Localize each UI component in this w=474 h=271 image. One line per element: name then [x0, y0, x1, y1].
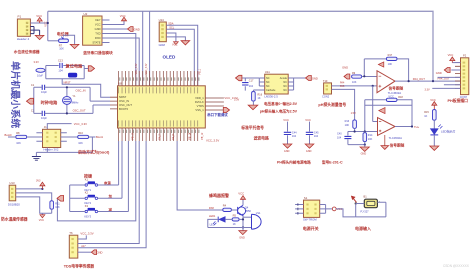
- svg-text:10K: 10K: [16, 141, 21, 145]
- wire R10 right: [89, 136, 96, 138]
- svg-text:标准平托信号: 标准平托信号: [240, 125, 264, 130]
- resistor R4: [223, 208, 232, 211]
- svg-text:TDS电导率传感器: TDS电导率传感器: [64, 263, 95, 268]
- svg-text:3.3V: 3.3V: [425, 88, 430, 91]
- ground earth at boot: [32, 157, 41, 161]
- svg-text:K2: K2: [85, 191, 89, 195]
- svg-text:BOOT0: BOOT0: [119, 107, 129, 111]
- svg-text:防水温度传感器: 防水温度传感器: [1, 217, 28, 222]
- svg-text:串口下载调试: 串口下载调试: [207, 112, 228, 117]
- svg-text:VCC_3.3V: VCC_3.3V: [206, 139, 219, 143]
- wire HC-05 KEY stub: [102, 19, 110, 21]
- wire TDS pin1 to VCC: [78, 235, 87, 239]
- capacitor C44: [287, 122, 289, 144]
- potentiometer R7: [59, 39, 69, 43]
- svg-text:NC: NC: [266, 81, 270, 84]
- MCU inside bottom pin names: [119, 120, 198, 126]
- buzzer LS1: [252, 214, 262, 229]
- svg-text:PA4_OUT: PA4_OUT: [413, 77, 425, 81]
- svg-text:PJ-327: PJ-327: [360, 209, 369, 213]
- wire op2 minus input: [373, 121, 378, 123]
- svg-text:NC: NC: [266, 77, 270, 80]
- svg-text:PA8: PA8: [209, 206, 214, 210]
- svg-text:GND: GND: [239, 237, 245, 240]
- port arrow reset: [84, 68, 88, 70]
- wire LM336 input: [242, 77, 259, 79]
- wire button left rail: [69, 185, 71, 212]
- svg-text:3.3V: 3.3V: [234, 98, 239, 101]
- svg-text:Boot0: Boot0: [5, 133, 13, 137]
- bluetooth module U2 HC-05: [83, 16, 102, 45]
- port arrow button common: [57, 196, 64, 202]
- svg-text:启动方式为(boot): 启动方式为(boot): [78, 149, 110, 155]
- arrow feedback direction op2: [379, 108, 385, 114]
- svg-text:蓝牙串口通信模块: 蓝牙串口通信模块: [83, 50, 113, 55]
- svg-text:T6: T6: [69, 231, 73, 235]
- svg-text:P2: P2: [463, 54, 467, 58]
- svg-text:R5: R5: [233, 213, 237, 217]
- resistor R17 feedback: [386, 57, 397, 60]
- op-amp U10B TLC4502A: [378, 118, 396, 136]
- wire OLED pin4 to GND: [166, 37, 185, 41]
- capacitor C45: [309, 122, 311, 144]
- svg-text:TH+: TH+: [414, 125, 420, 129]
- svg-text:电源开关: 电源开关: [303, 225, 319, 231]
- svg-text:10K: 10K: [78, 141, 83, 145]
- resistor R13: [353, 120, 357, 128]
- pushbutton K1: [85, 184, 87, 186]
- svg-text:滤波电路: 滤波电路: [253, 135, 269, 140]
- wire LED to ground: [433, 135, 435, 146]
- ground at op2 body: [384, 135, 386, 146]
- svg-text:8MHz: 8MHz: [72, 100, 79, 104]
- svg-text:R14: R14: [368, 134, 373, 137]
- svg-text:VDD_1: VDD_1: [195, 96, 204, 100]
- svg-text:10K: 10K: [345, 124, 350, 127]
- svg-text:VCC: VCC: [36, 14, 42, 18]
- wire crystal top: [34, 87, 110, 101]
- svg-text:TLC4502A: TLC4502A: [388, 91, 402, 95]
- svg-text:T10: T10: [323, 79, 328, 83]
- wire P1 pins 2-4 common: [30, 27, 39, 36]
- svg-text:Boot1: Boot1: [96, 135, 104, 139]
- wire DS18B20 pin3 loop: [16, 197, 52, 215]
- connector P2 pH board: [461, 58, 469, 95]
- svg-text:R18: R18: [398, 96, 403, 99]
- svg-text:LS1: LS1: [256, 211, 261, 215]
- svg-text:SW-TROM: SW-TROM: [303, 217, 317, 221]
- svg-text:K3: K3: [85, 204, 89, 208]
- wire switch to battery: [336, 209, 356, 217]
- svg-text:OSC_OUT: OSC_OUT: [73, 108, 86, 112]
- svg-text:10pF: 10pF: [41, 90, 47, 94]
- wire OLED pin1 to MCU: [166, 25, 197, 86]
- svg-text:K1: K1: [85, 177, 89, 181]
- svg-text:GND: GND: [342, 66, 348, 70]
- wire pH board pin3 GND: [451, 69, 460, 71]
- MCU top pin stubs: [119, 71, 198, 86]
- svg-text:GND: GND: [312, 76, 318, 80]
- wire K2 row: [70, 141, 122, 198]
- svg-text:STATE: STATE: [92, 41, 100, 45]
- wire R4 to Q4 base: [231, 209, 237, 211]
- svg-text:VCC: VCC: [43, 21, 47, 27]
- svg-text:P1: P1: [18, 15, 22, 19]
- svg-text:GND: GND: [436, 71, 442, 75]
- svg-text:NRST: NRST: [64, 81, 71, 85]
- svg-text:10uF: 10uF: [37, 74, 43, 78]
- wire op1 feedback loop: [364, 59, 408, 81]
- svg-text:RXD: RXD: [95, 36, 101, 40]
- svg-text:C1: C1: [31, 83, 35, 87]
- svg-text:LED指示灯: LED指示灯: [441, 128, 455, 133]
- svg-text:PB_1: PB_1: [200, 68, 202, 74]
- microcontroller U8 STM32: [118, 86, 206, 128]
- MCU top pin numbers: [120, 77, 199, 80]
- svg-text:1K: 1K: [424, 115, 427, 118]
- wire LED to R5 to emitter: [225, 218, 243, 220]
- ground at C45: [305, 144, 314, 148]
- wire pH board pin7: [444, 84, 461, 86]
- svg-text:水位液位传感器: 水位液位传感器: [13, 49, 40, 54]
- svg-text:GDM: GDM: [159, 43, 166, 47]
- wire op2 bottom rail to ground: [348, 144, 365, 146]
- svg-text:DVCLK: DVCLK: [195, 100, 204, 104]
- resistor R8: [16, 135, 27, 138]
- svg-text:Header 3X2: Header 3X2: [44, 147, 59, 151]
- svg-text:1K: 1K: [233, 222, 236, 226]
- svg-text:PH板接插口: PH板接插口: [448, 98, 469, 103]
- wire R13 to plus input: [348, 128, 378, 131]
- svg-text:PH探头内部电源电路: PH探头内部电源电路: [277, 159, 311, 164]
- svg-text:OSC_IN: OSC_IN: [76, 88, 86, 92]
- wire OLED pin2 to MCU: [166, 29, 194, 86]
- resistor R11: [50, 201, 54, 209]
- svg-text:U2: U2: [84, 12, 88, 16]
- svg-text:NC: NC: [283, 85, 287, 88]
- svg-text:104: 104: [249, 85, 254, 88]
- ground at LED indicator: [430, 146, 439, 150]
- wire op2 output: [395, 126, 412, 128]
- wire Q4 collector to VCC: [242, 199, 244, 205]
- svg-text:单片机最小系统: 单片机最小系统: [9, 61, 21, 129]
- svg-text:GND: GND: [284, 150, 290, 153]
- svg-text:信号跟随: 信号跟随: [390, 143, 405, 148]
- wire op inputs junction down: [372, 86, 374, 122]
- power VCC down at DS18B20: [40, 215, 45, 218]
- wire pH probe pin1 to op-amps: [332, 85, 378, 87]
- svg-text:104: 104: [58, 69, 63, 73]
- wire OLED pin3 to VCC: [166, 33, 176, 42]
- switch S1 power: [304, 200, 320, 217]
- pushbutton reset key: [69, 73, 77, 77]
- wire boot header left pins: [27, 133, 43, 142]
- connector boot header 3x2: [43, 129, 61, 147]
- wire TDS pin2 to MCU: [78, 141, 139, 244]
- MCU left pin stubs: [110, 97, 118, 109]
- svg-text:GND: GND: [134, 27, 140, 31]
- svg-text:R15: R15: [424, 111, 429, 114]
- power VCC at switch: [332, 207, 336, 211]
- svg-text:VTRS: VTRS: [197, 104, 204, 108]
- svg-text:J1: J1: [44, 125, 47, 129]
- op-amp U10A TLC4502A: [377, 71, 395, 93]
- svg-text:LED: LED: [210, 222, 215, 226]
- wire potentiometer wiper to ground: [63, 35, 74, 44]
- svg-text:DS18B20: DS18B20: [8, 202, 20, 206]
- ground arrow at TDS: [91, 250, 96, 255]
- svg-text:pH探头测量信号: pH探头测量信号: [318, 102, 346, 107]
- svg-text:R13: R13: [345, 120, 350, 123]
- connector U13 DS18B20: [9, 185, 16, 201]
- resistor feedback op2: [386, 98, 397, 101]
- arrow feedback direction op1: [378, 62, 383, 67]
- svg-text:TXD: TXD: [95, 32, 100, 36]
- svg-text:复位电路: 复位电路: [65, 62, 84, 69]
- resistor R at op1 inverting input: [352, 75, 362, 78]
- svg-text:1K: 1K: [258, 97, 261, 100]
- wire P1 drop to potentiometer: [48, 40, 59, 42]
- wire K3 row: [70, 141, 129, 212]
- wire battery loop: [356, 202, 386, 217]
- svg-text:VSS_1: VSS_1: [195, 108, 204, 112]
- svg-text:时钟电路: 时钟电路: [41, 99, 59, 106]
- svg-text:3.3V: 3.3V: [34, 60, 40, 64]
- capacitor C17: [244, 78, 246, 91]
- wire reset loop: [45, 66, 84, 79]
- svg-text:R4: R4: [223, 204, 227, 208]
- svg-text:C17: C17: [249, 80, 254, 83]
- svg-text:10K: 10K: [352, 81, 357, 84]
- svg-text:VCC: VCC: [305, 118, 311, 122]
- wire MCU to buzzer R4: [177, 141, 223, 210]
- wire P1 vertical drop: [47, 11, 49, 41]
- svg-text:GND: GND: [95, 27, 101, 31]
- wire bus vertical to MCU pin 8: [142, 11, 144, 86]
- wire TDS pin4 GND: [78, 251, 92, 253]
- wire buzzer top: [243, 216, 252, 218]
- resistor R16: [252, 92, 256, 102]
- svg-text:U11: U11: [265, 70, 270, 74]
- transistor Q4 8550: [238, 207, 246, 215]
- resistor R15: [433, 110, 437, 121]
- wire button ground rail: [57, 141, 135, 221]
- wire K1 row: [70, 141, 119, 185]
- svg-text:PA_7: PA_7: [158, 133, 161, 139]
- resistor R14: [363, 133, 367, 142]
- svg-text:NRST: NRST: [119, 95, 127, 99]
- svg-text:PA5: PA5: [340, 85, 345, 88]
- resistor R10: [78, 135, 89, 138]
- wire LM336 right pins: [288, 78, 305, 90]
- wire top bus VCC rail: [48, 11, 433, 81]
- MCU bottom pin stubs: [119, 128, 198, 141]
- port arrow crystal: [27, 98, 34, 104]
- crystal Y1 8MHz: [66, 87, 68, 113]
- svg-text:C40: C40: [337, 133, 342, 136]
- ground arrow at LM336 right: [306, 76, 312, 81]
- svg-text:OLED: OLED: [163, 55, 176, 60]
- svg-text:A17: A17: [81, 245, 86, 248]
- svg-text:PB_12: PB_12: [202, 132, 204, 140]
- svg-text:B1: B1: [364, 195, 368, 199]
- port arrow 2.5V input: [236, 75, 242, 80]
- svg-text:R8: R8: [16, 131, 20, 135]
- svg-text:10K: 10K: [388, 63, 393, 66]
- svg-text:104: 104: [337, 136, 342, 139]
- svg-text:电压基准0~输出2.5V: 电压基准0~输出2.5V: [264, 101, 298, 106]
- wire R15 to LED: [433, 120, 435, 129]
- svg-text:1.5V: 1.5V: [351, 112, 356, 115]
- wire HC-05 TXD to MCU: [102, 34, 136, 86]
- wire NRST to MCU: [62, 79, 110, 97]
- svg-text:LED1: LED1: [209, 214, 216, 218]
- connector P1: [17, 19, 30, 36]
- power VCC arrow at battery: [353, 198, 357, 203]
- svg-text:VCC: VCC: [39, 219, 44, 222]
- svg-text:PB_10: PB_10: [133, 132, 135, 140]
- svg-text:VCC: VCC: [120, 14, 126, 18]
- svg-text:蜂鸣器报警: 蜂鸣器报警: [209, 192, 229, 198]
- wire DS18B20 pin2 to R11: [16, 193, 52, 201]
- svg-text:pH探头输入电压为2.5V: pH探头输入电压为2.5V: [260, 109, 298, 114]
- ground at C44: [283, 144, 292, 148]
- ground at buzzer: [242, 228, 244, 231]
- svg-text:VCC: VCC: [95, 23, 101, 27]
- wire LED left loop: [208, 219, 218, 227]
- wire bus vertical to MCU pin 10: [149, 11, 151, 86]
- resistor R5: [232, 218, 239, 221]
- wire HC-05 STATE stub: [102, 42, 110, 44]
- voltage reference U11 LM336: [265, 74, 289, 94]
- svg-text:LM336-2.5: LM336-2.5: [264, 95, 278, 99]
- wire LM336 left pins: [253, 78, 264, 90]
- svg-text:10K: 10K: [55, 206, 60, 209]
- wire HC-05 VCC: [102, 21, 124, 25]
- svg-text:Cathode: Cathode: [266, 89, 276, 92]
- svg-text:Anode: Anode: [280, 77, 288, 80]
- wire crystal bottom: [34, 105, 110, 113]
- svg-text:3V3: 3V3: [36, 179, 41, 182]
- wire emitter vertical: [242, 216, 244, 228]
- LED D3 indicator: [430, 129, 438, 135]
- wire op1 output to pH board: [395, 80, 461, 82]
- svg-text:10K: 10K: [59, 46, 64, 50]
- power VCC at DS18B20: [40, 182, 45, 186]
- ground GND arrow at HC-05: [102, 28, 128, 30]
- svg-text:KEY: KEY: [95, 18, 101, 22]
- ground at op2 input network: [360, 147, 369, 151]
- svg-text:8550: 8550: [245, 209, 251, 213]
- connector U14 OLED header: [159, 22, 166, 42]
- svg-text:VCC_3.3V: VCC_3.3V: [80, 232, 93, 236]
- port arrow SWD at MCU right: [223, 107, 229, 112]
- svg-text:U13: U13: [9, 181, 15, 185]
- capacitor C13: [60, 63, 62, 68]
- svg-text:VCC: VCC: [430, 98, 436, 102]
- ground at P1: [35, 35, 44, 39]
- svg-text:R10: R10: [78, 131, 83, 135]
- wire pH probe pin2 down to R13: [332, 89, 355, 120]
- svg-text:VCC_3.3V: VCC_3.3V: [74, 122, 87, 126]
- wire pH board pin1 VCC: [452, 62, 460, 64]
- svg-text:GND: GND: [97, 251, 103, 255]
- wire DS18B20 pin1 VCC: [16, 188, 43, 190]
- svg-text:VCC_3.3V: VCC_3.3V: [146, 63, 148, 74]
- svg-text:VCC: VCC: [238, 192, 244, 196]
- svg-text:C13: C13: [58, 58, 63, 62]
- svg-text:Y1: Y1: [72, 94, 76, 98]
- wire R8 to header: [8, 136, 43, 138]
- svg-text:CON2: CON2: [322, 94, 330, 98]
- connector T10 pH probe: [324, 83, 332, 94]
- svg-text:U14: U14: [159, 18, 165, 22]
- svg-text:OSC_IN: OSC_IN: [119, 99, 129, 103]
- svg-text:GND: GND: [361, 153, 367, 156]
- wire HC-05 RXD to MCU: [102, 38, 139, 86]
- svg-text:NC: NC: [266, 85, 270, 88]
- wire switch left pins: [295, 205, 303, 214]
- svg-text:CSDN @XXXXXX: CSDN @XXXXXX: [443, 264, 470, 268]
- wire P1 pin1 to VCC net: [30, 22, 47, 24]
- wire bottom rail buzzer: [208, 227, 252, 229]
- wire crystal left vertical: [33, 87, 35, 113]
- svg-text:PA_8: PA_8: [172, 133, 175, 139]
- svg-text:VCC: VCC: [283, 118, 289, 122]
- wire switch right pins: [320, 205, 333, 214]
- ground at potentiometer: [70, 44, 79, 48]
- pushbutton K3: [85, 210, 87, 212]
- MCU inside top pin names: [119, 87, 198, 93]
- svg-text:S1: S1: [304, 196, 308, 200]
- ground at LM336: [248, 105, 258, 110]
- svg-text:电源输入: 电源输入: [355, 225, 371, 231]
- svg-text:OSC_OUT: OSC_OUT: [119, 103, 132, 107]
- svg-text:GND: GND: [306, 150, 312, 153]
- wire VCC to boot header: [47, 124, 71, 130]
- wire R16 to ground: [252, 90, 254, 105]
- ground at OLED: [181, 41, 190, 45]
- svg-text:VCC_3.3V: VCC_3.3V: [136, 63, 138, 74]
- wire pH board pin stubs: [455, 63, 461, 89]
- svg-text:R17: R17: [388, 54, 393, 57]
- wire boot bottom to ground: [36, 137, 92, 156]
- svg-text:Header 4: Header 4: [17, 37, 30, 41]
- svg-text:KEY3: KEY3: [84, 214, 91, 218]
- wire op1 inverting input: [362, 76, 377, 78]
- svg-text:10K: 10K: [368, 138, 373, 141]
- wire boot header right pins: [61, 133, 78, 142]
- connector T6 TDS: [69, 235, 78, 258]
- svg-text:R16: R16: [258, 93, 263, 96]
- svg-text:10pF: 10pF: [41, 116, 47, 120]
- MCU bottom pin numbers: [120, 130, 199, 133]
- svg-text:PB_14: PB_14: [190, 132, 192, 140]
- svg-text:型号E-201-C: 型号E-201-C: [322, 159, 343, 164]
- MCU right pin stubs: [205, 98, 224, 110]
- wire op2 feedback loop: [365, 100, 412, 132]
- svg-text:NC: NC: [283, 81, 287, 84]
- svg-text:TLC4502A: TLC4502A: [389, 136, 403, 140]
- svg-text:NC: NC: [283, 89, 287, 92]
- svg-text:104: 104: [314, 135, 319, 138]
- svg-text:信号跟随: 信号跟随: [389, 85, 404, 90]
- svg-text:104: 104: [292, 135, 297, 138]
- wire TDS pin3 to MCU: [78, 141, 146, 248]
- pushbutton K2: [85, 197, 87, 199]
